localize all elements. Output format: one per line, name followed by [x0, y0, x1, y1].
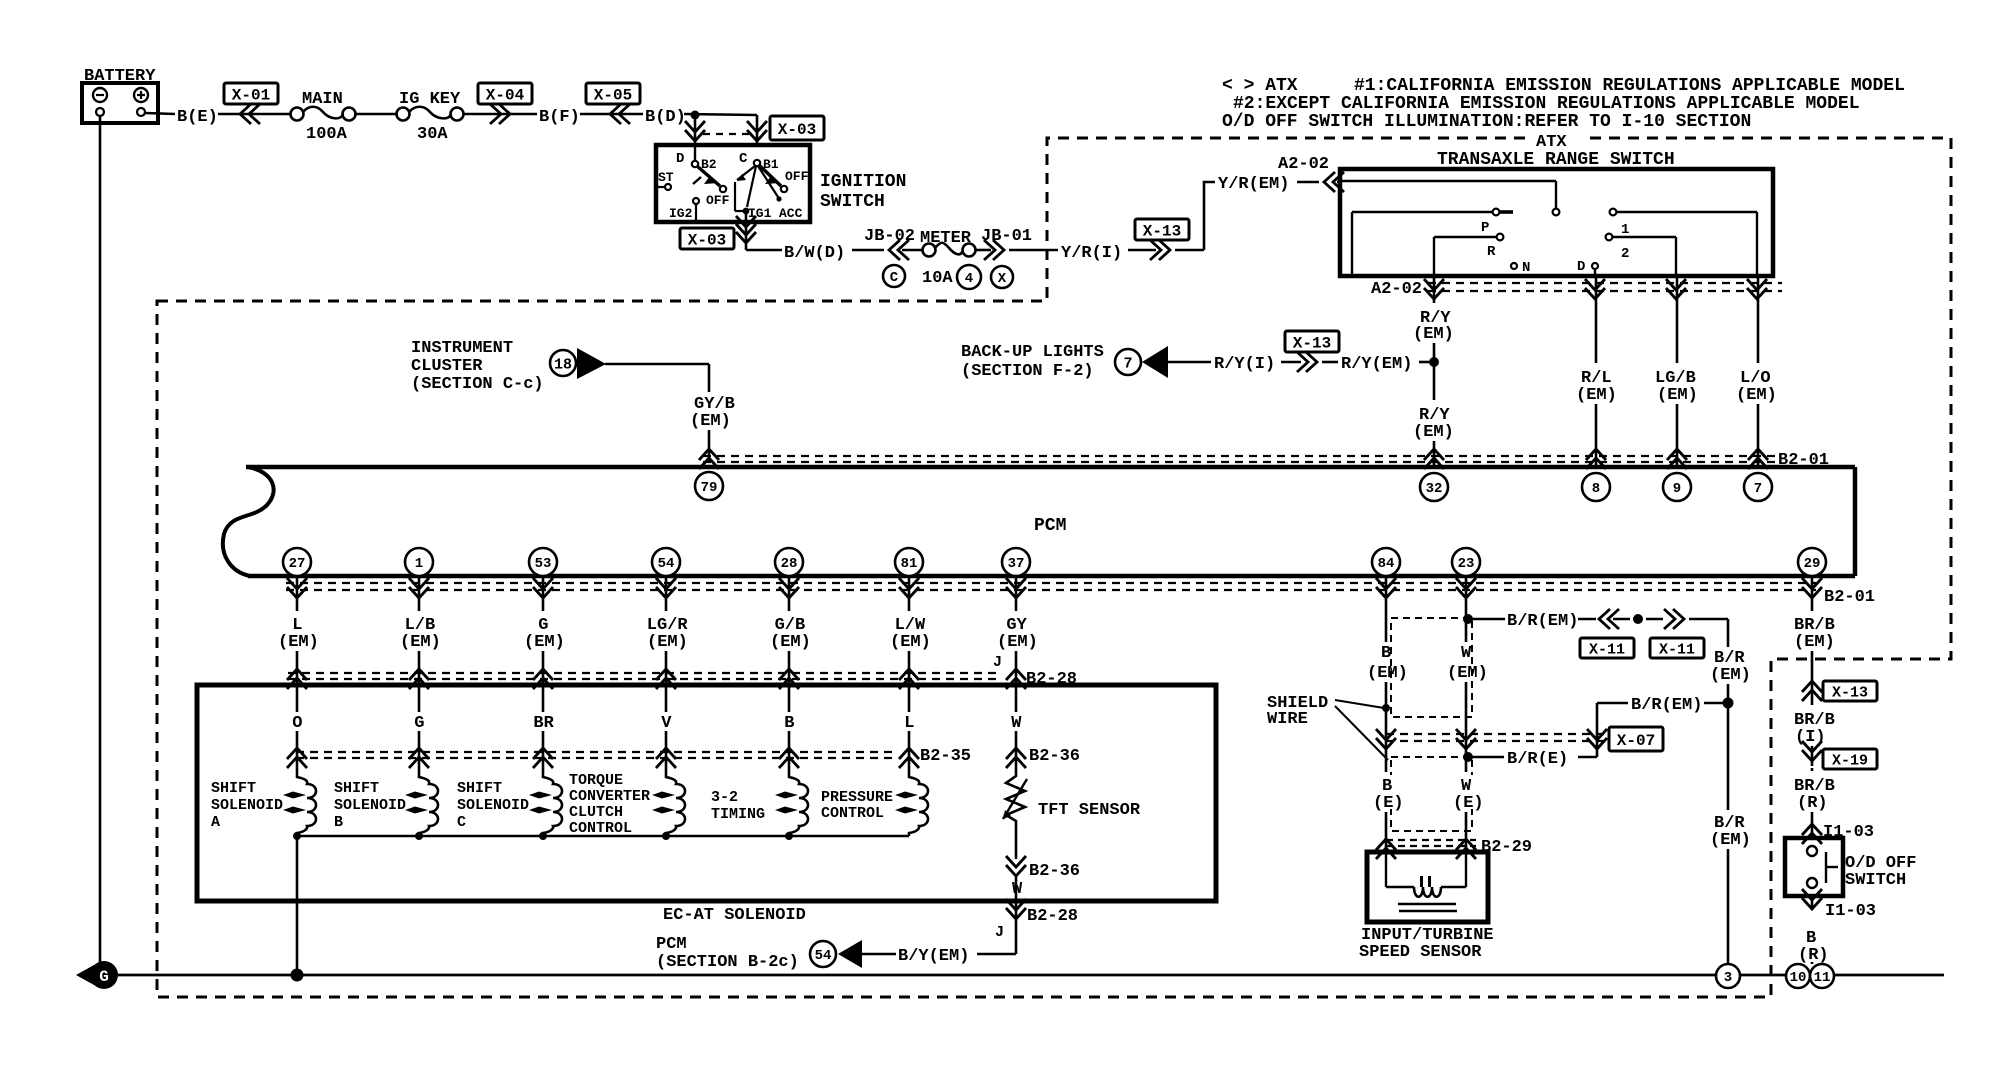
svg-text:B2-35: B2-35: [920, 747, 971, 766]
svg-text:30A: 30A: [417, 125, 448, 144]
svg-text:B2-36: B2-36: [1029, 862, 1080, 881]
svg-text:B2-01: B2-01: [1778, 451, 1829, 470]
svg-text:X-05: X-05: [594, 86, 632, 104]
svg-text:X-03: X-03: [688, 231, 726, 249]
svg-text:OFF: OFF: [706, 193, 730, 208]
svg-text:81: 81: [901, 556, 918, 572]
svg-text:BR: BR: [533, 714, 554, 733]
svg-text:9: 9: [1673, 481, 1681, 497]
svg-text:CONTROL: CONTROL: [569, 820, 632, 837]
svg-text:WIRE: WIRE: [1267, 710, 1308, 729]
svg-text:7: 7: [1754, 481, 1762, 497]
svg-text:B: B: [1381, 644, 1391, 663]
svg-text:(EM): (EM): [400, 633, 441, 652]
svg-text:#2:EXCEPT CALIFORNIA EMISSION: #2:EXCEPT CALIFORNIA EMISSION REGULATION…: [1233, 94, 1860, 114]
svg-text:I1-03: I1-03: [1825, 902, 1876, 921]
svg-text:(EM): (EM): [890, 633, 931, 652]
svg-text:TORQUE: TORQUE: [569, 772, 623, 789]
svg-text:C: C: [457, 814, 466, 831]
svg-text:54: 54: [815, 948, 832, 964]
svg-text:28: 28: [781, 556, 798, 572]
svg-text:IG2: IG2: [669, 206, 693, 221]
svg-text:4: 4: [965, 271, 973, 287]
svg-text:(EM): (EM): [997, 633, 1038, 652]
svg-text:CONTROL: CONTROL: [821, 805, 884, 822]
svg-text:(E): (E): [1453, 794, 1484, 813]
svg-text:MAIN: MAIN: [302, 90, 343, 109]
svg-text:R/Y(EM): R/Y(EM): [1341, 355, 1412, 374]
svg-text:(R): (R): [1798, 946, 1829, 965]
svg-text:(EM): (EM): [1794, 633, 1835, 652]
svg-text:(EM): (EM): [1447, 664, 1488, 683]
svg-text:B: B: [784, 714, 794, 733]
svg-text:X-13: X-13: [1293, 334, 1331, 352]
svg-text:PRESSURE: PRESSURE: [821, 789, 893, 806]
svg-text:TFT SENSOR: TFT SENSOR: [1038, 801, 1141, 820]
svg-text:8: 8: [1592, 481, 1600, 497]
svg-text:(EM): (EM): [1710, 831, 1751, 850]
svg-text:B/Y(EM): B/Y(EM): [898, 947, 969, 966]
svg-text:INSTRUMENT: INSTRUMENT: [411, 339, 513, 358]
svg-text:V: V: [661, 714, 672, 733]
svg-text:B/W(D): B/W(D): [784, 244, 845, 263]
svg-text:SOLENOID: SOLENOID: [457, 797, 529, 814]
svg-text:SWITCH: SWITCH: [820, 192, 885, 212]
svg-text:X-13: X-13: [1143, 222, 1181, 240]
svg-text:SWITCH: SWITCH: [1845, 871, 1906, 890]
svg-text:SHIFT: SHIFT: [211, 780, 256, 797]
svg-text:A2-02: A2-02: [1371, 280, 1422, 299]
svg-text:L: L: [904, 714, 914, 733]
svg-text:D: D: [676, 151, 684, 167]
svg-text:X-11: X-11: [1589, 641, 1625, 658]
svg-text:PCM: PCM: [1034, 516, 1066, 536]
svg-text:X-19: X-19: [1832, 752, 1868, 769]
svg-text:B/R(EM): B/R(EM): [1507, 612, 1578, 631]
svg-text:(EM): (EM): [647, 633, 688, 652]
svg-text:BACK-UP LIGHTS: BACK-UP LIGHTS: [961, 343, 1104, 362]
svg-text:X-01: X-01: [232, 86, 270, 104]
svg-text:X-04: X-04: [486, 86, 525, 104]
svg-text:R/Y(I): R/Y(I): [1214, 355, 1275, 374]
svg-text:(SECTION B-2c): (SECTION B-2c): [656, 953, 799, 972]
svg-text:1: 1: [415, 556, 423, 572]
svg-text:X-11: X-11: [1659, 641, 1695, 658]
svg-text:(R): (R): [1797, 794, 1828, 813]
svg-text:Y/R(I): Y/R(I): [1061, 244, 1122, 263]
svg-text:X-03: X-03: [778, 121, 816, 139]
svg-text:(E): (E): [1373, 794, 1404, 813]
svg-text:IG1: IG1: [748, 206, 772, 221]
svg-text:(EM): (EM): [770, 633, 811, 652]
svg-text:D: D: [1577, 259, 1585, 275]
svg-text:(EM): (EM): [1710, 666, 1751, 685]
svg-text:(EM): (EM): [1736, 386, 1777, 405]
svg-text:A: A: [211, 814, 220, 831]
svg-text:29: 29: [1804, 556, 1821, 572]
svg-text:CLUSTER: CLUSTER: [411, 357, 483, 376]
svg-text:79: 79: [701, 480, 718, 496]
svg-text:11: 11: [1814, 970, 1831, 986]
svg-text:W: W: [1012, 880, 1023, 899]
svg-text:2: 2: [1621, 246, 1629, 262]
svg-text:B(E): B(E): [177, 108, 218, 127]
svg-text:(EM): (EM): [1413, 423, 1454, 442]
svg-text:X: X: [998, 271, 1007, 287]
svg-text:O: O: [292, 714, 302, 733]
svg-text:A2-02: A2-02: [1278, 155, 1329, 174]
svg-text:(EM): (EM): [1657, 386, 1698, 405]
svg-text:B(D): B(D): [645, 108, 686, 127]
svg-text:CLUTCH: CLUTCH: [569, 804, 623, 821]
svg-text:SPEED SENSOR: SPEED SENSOR: [1359, 943, 1482, 962]
svg-text:10: 10: [1790, 970, 1807, 986]
svg-text:23: 23: [1458, 556, 1475, 572]
svg-text:CONVERTER: CONVERTER: [569, 788, 650, 805]
svg-text:27: 27: [289, 556, 306, 572]
svg-text:J: J: [995, 924, 1004, 941]
svg-text:ST: ST: [658, 170, 674, 185]
svg-text:(SECTION C-c): (SECTION C-c): [411, 375, 544, 394]
svg-text:X-13: X-13: [1832, 684, 1868, 701]
svg-text:< > ATX: < > ATX: [1222, 76, 1298, 96]
svg-text:W: W: [1461, 644, 1472, 663]
svg-text:O/D OFF SWITCH ILLUMINATION:RE: O/D OFF SWITCH ILLUMINATION:REFER TO I-1…: [1222, 112, 1751, 132]
svg-text:W: W: [1011, 714, 1022, 733]
svg-text:10A: 10A: [922, 269, 953, 288]
svg-text:B/R(E): B/R(E): [1507, 750, 1568, 769]
svg-text:IG KEY: IG KEY: [399, 90, 461, 109]
svg-text:84: 84: [1378, 556, 1395, 572]
svg-text:N: N: [1522, 260, 1530, 276]
svg-text:J: J: [993, 654, 1002, 671]
svg-text:18: 18: [554, 356, 572, 373]
svg-text:ACC: ACC: [779, 206, 803, 221]
svg-text:B2-28: B2-28: [1027, 907, 1078, 926]
svg-text:R: R: [1487, 244, 1496, 260]
svg-text:(EM): (EM): [1413, 325, 1454, 344]
svg-text:X-07: X-07: [1617, 732, 1655, 750]
svg-text:EC-AT SOLENOID: EC-AT SOLENOID: [663, 906, 806, 925]
svg-text:3: 3: [1724, 970, 1732, 986]
svg-text:C: C: [890, 270, 899, 286]
svg-text:(EM): (EM): [1576, 386, 1617, 405]
svg-text:G: G: [414, 714, 424, 733]
svg-text:#1:CALIFORNIA EMISSION REGULAT: #1:CALIFORNIA EMISSION REGULATIONS APPLI…: [1354, 76, 1905, 96]
svg-text:SOLENOID: SOLENOID: [211, 797, 283, 814]
svg-text:32: 32: [1426, 481, 1443, 497]
svg-text:(EM): (EM): [524, 633, 565, 652]
svg-text:(EM): (EM): [278, 633, 319, 652]
svg-text:OFF: OFF: [785, 169, 809, 184]
svg-text:Y/R(EM): Y/R(EM): [1218, 175, 1289, 194]
svg-text:37: 37: [1008, 556, 1025, 572]
svg-text:TIMING: TIMING: [711, 806, 765, 823]
svg-text:(EM): (EM): [690, 412, 731, 431]
svg-text:PCM: PCM: [656, 935, 687, 954]
svg-text:1: 1: [1621, 222, 1629, 238]
svg-text:B: B: [334, 814, 343, 831]
svg-text:54: 54: [658, 556, 675, 572]
svg-text:B(F): B(F): [539, 108, 580, 127]
svg-text:7: 7: [1123, 355, 1132, 372]
svg-text:53: 53: [535, 556, 552, 572]
svg-text:SHIFT: SHIFT: [457, 780, 502, 797]
svg-text:3-2: 3-2: [711, 789, 738, 806]
svg-text:P: P: [1481, 220, 1489, 236]
svg-text:B/R(EM): B/R(EM): [1631, 696, 1702, 715]
svg-text:(EM): (EM): [1367, 664, 1408, 683]
svg-text:SOLENOID: SOLENOID: [334, 797, 406, 814]
svg-text:IGNITION: IGNITION: [820, 172, 906, 192]
svg-text:(SECTION F-2): (SECTION F-2): [961, 362, 1094, 381]
svg-text:G: G: [99, 968, 109, 986]
svg-text:B2-36: B2-36: [1029, 747, 1080, 766]
svg-text:SHIFT: SHIFT: [334, 780, 379, 797]
svg-text:C: C: [739, 151, 748, 167]
svg-text:100A: 100A: [306, 125, 348, 144]
svg-text:B2-01: B2-01: [1824, 588, 1875, 607]
